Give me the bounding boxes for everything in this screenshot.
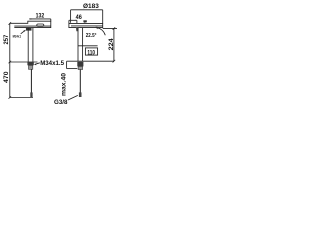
svg-text:470: 470 <box>3 71 10 83</box>
svg-text:max.40: max.40 <box>61 72 67 96</box>
side deck line <box>67 60 114 62</box>
side view hose end fitting <box>79 92 82 97</box>
svg-text:M24x1: M24x1 <box>13 33 22 38</box>
front view disc inner notch <box>37 24 44 26</box>
dimension max40 bracket <box>66 61 68 68</box>
svg-text:G3/8: G3/8 <box>54 99 68 106</box>
dimension slash ticks <box>9 61 12 64</box>
dimension 183 left extension <box>70 10 72 23</box>
side view threaded shank <box>78 66 83 69</box>
front view body column <box>27 28 29 62</box>
label G3/8 leader <box>68 95 78 100</box>
side view joystick knob <box>84 22 86 24</box>
dimension 224 line <box>113 29 115 62</box>
side view disc inner bottom line <box>71 25 103 27</box>
dimension 257/470 line <box>9 23 11 97</box>
svg-text:257: 257 <box>3 34 10 44</box>
svg-text:Ø183: Ø183 <box>83 3 99 10</box>
dimension 132 right extension <box>50 19 52 22</box>
side view outlet stub <box>76 28 79 32</box>
front deck line <box>10 61 38 63</box>
front view mounting flange <box>27 62 33 65</box>
dimension 22.5 arc leader <box>97 27 106 35</box>
side view body column <box>77 28 79 62</box>
front view threaded shank <box>29 65 33 69</box>
svg-text:110: 110 <box>87 49 95 56</box>
dimension 224 slash ticks <box>113 27 116 30</box>
bottom extension line <box>10 97 33 99</box>
dimension 183 right extension <box>102 10 104 24</box>
label M24x1 leader <box>21 30 26 34</box>
svg-text:22.5°: 22.5° <box>86 33 97 39</box>
svg-text:M34x1.5: M34x1.5 <box>40 60 64 67</box>
dimension 132 line <box>29 18 51 20</box>
front view disc spout outline <box>10 21 51 27</box>
dimension 224 upper extension <box>103 28 117 30</box>
front view supply hose <box>30 69 32 92</box>
side view outlet level line <box>78 45 98 47</box>
side view supply hose <box>79 70 81 93</box>
dimension 110 box <box>85 48 97 55</box>
dimension 183 line <box>71 9 103 11</box>
dimension 46 line <box>69 19 77 21</box>
front view aerator stub <box>26 28 32 31</box>
front view hose end fitting <box>30 92 32 97</box>
side view disc profile <box>69 23 103 27</box>
side view mounting flange <box>77 62 83 67</box>
label M34x1.5 leader <box>35 63 40 65</box>
